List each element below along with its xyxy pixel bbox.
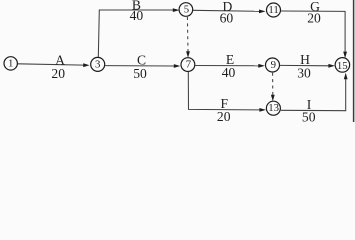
svg-text:40: 40: [130, 8, 144, 23]
svg-text:1: 1: [8, 57, 13, 69]
svg-text:20: 20: [51, 66, 65, 81]
svg-text:20: 20: [307, 11, 321, 26]
svg-text:7: 7: [186, 59, 192, 71]
svg-text:13: 13: [268, 102, 279, 114]
svg-text:60: 60: [220, 11, 234, 26]
svg-text:5: 5: [184, 4, 189, 16]
svg-text:30: 30: [297, 66, 311, 81]
svg-text:3: 3: [95, 59, 100, 71]
svg-text:20: 20: [217, 109, 231, 122]
svg-text:15: 15: [337, 60, 348, 72]
svg-text:40: 40: [222, 65, 236, 80]
svg-text:50: 50: [133, 66, 147, 81]
svg-text:11: 11: [268, 4, 278, 16]
svg-text:9: 9: [271, 59, 276, 71]
svg-text:50: 50: [302, 109, 316, 122]
